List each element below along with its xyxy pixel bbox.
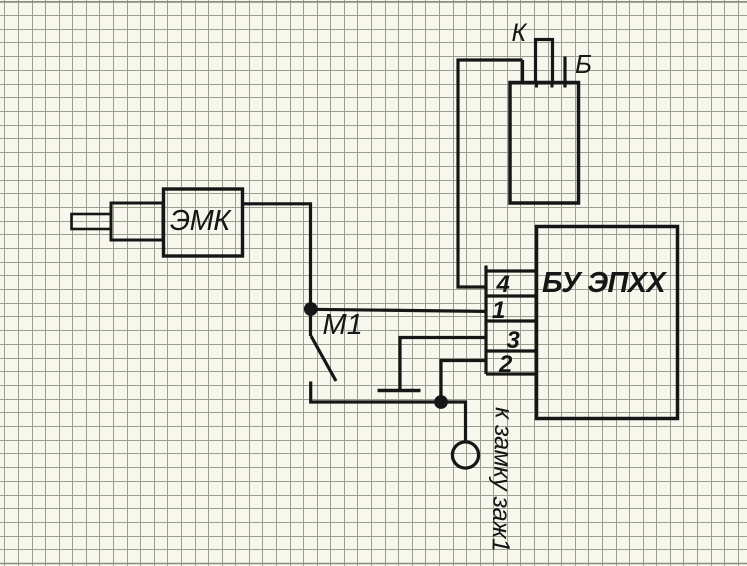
solenoid valve EMK main box: [164, 189, 243, 256]
svg-text:Б: Б: [575, 49, 592, 79]
terminal circle to ignition lock: [452, 442, 478, 468]
node M1 junction dot: [304, 302, 318, 316]
svg-text:1: 1: [492, 297, 505, 324]
svg-text:4: 4: [496, 271, 510, 298]
wire coil K terminal to pin 4: [458, 60, 523, 287]
svg-text:М1: М1: [323, 309, 363, 341]
wire EMK to node M1: [243, 204, 311, 303]
pin 1 box: [486, 294, 537, 297]
svg-text:ЭМК: ЭМК: [170, 205, 232, 237]
ground stem and wire to pin 3: [400, 338, 486, 391]
svg-text:3: 3: [507, 327, 521, 354]
coil terminal stubs into body: [537, 82, 553, 88]
wire node M1 to pin 1: [311, 309, 487, 311]
ignition coil K terminal: [536, 40, 553, 83]
ground bar: [378, 389, 421, 392]
connector pin column left edge: [484, 266, 487, 375]
solenoid valve EMK plug tip: [72, 214, 112, 229]
pin 4 box: [486, 269, 537, 272]
junction dot at ignition-lock wire: [434, 395, 448, 409]
pin 2 box: [486, 349, 537, 352]
control unit BU EPHH box: [537, 227, 678, 419]
wire pin 2 to junction: [441, 361, 486, 399]
svg-text:2: 2: [498, 351, 513, 378]
ignition coil B terminal: [563, 57, 566, 88]
solenoid valve EMK body: [111, 203, 163, 240]
ignition coil body: [510, 83, 579, 204]
switch M1 lower contact and wire to junction: [311, 382, 466, 442]
svg-text:К: К: [512, 19, 528, 47]
switch M1 blade: [311, 336, 336, 381]
pin column bottom: [486, 372, 537, 375]
pin 3 box: [486, 319, 537, 322]
svg-text:БУ ЭПХХ: БУ ЭПХХ: [542, 267, 667, 299]
switch M1 stem: [309, 309, 312, 336]
svg-text:к замку заж1: к замку заж1: [486, 407, 517, 552]
